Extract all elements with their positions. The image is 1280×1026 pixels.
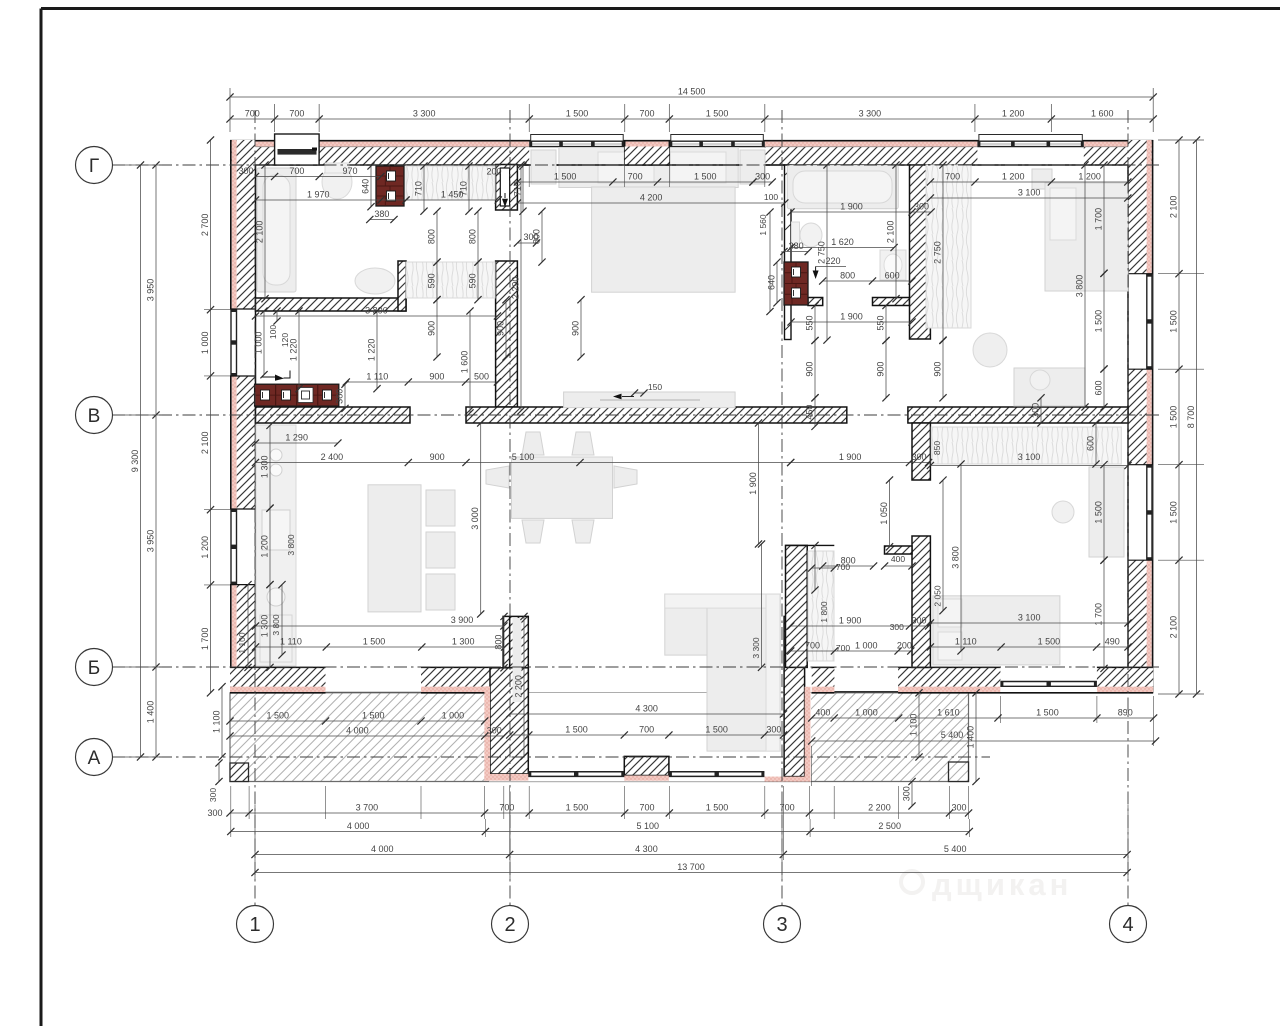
svg-text:1 200: 1 200: [260, 535, 270, 558]
svg-text:710: 710: [414, 181, 424, 196]
terrace door sill hall: [834, 691, 898, 693]
svg-text:3 100: 3 100: [1018, 452, 1041, 462]
living dims: [480, 423, 482, 614]
svg-text:2 100: 2 100: [255, 221, 265, 244]
svg-text:900: 900: [429, 372, 444, 382]
axis bubble 1: [237, 906, 274, 943]
svg-text:800: 800: [468, 229, 478, 244]
svg-text:1 110: 1 110: [280, 637, 302, 647]
svg-text:1 900: 1 900: [840, 312, 863, 322]
svg-text:1 290: 1 290: [285, 433, 308, 443]
axis bubble &#1043;: [76, 147, 113, 184]
entry niche top-left: [275, 134, 320, 165]
svg-text:2 050: 2 050: [933, 585, 943, 607]
svg-text:1 110: 1 110: [366, 372, 388, 382]
svg-text:900: 900: [427, 321, 437, 336]
svg-text:1 500: 1 500: [565, 725, 588, 735]
svg-text:3 300: 3 300: [859, 109, 882, 119]
wardrobe office: [931, 427, 1121, 464]
svg-text:1 220: 1 220: [289, 339, 299, 362]
svg-text:970: 970: [343, 166, 358, 176]
svg-text:3 800: 3 800: [286, 534, 296, 556]
interior wall B-row kitchen: [256, 407, 411, 423]
svg-text:1 100: 1 100: [237, 632, 247, 654]
interior wall B-row middle: [466, 407, 847, 423]
exterior bottom wall segment: [898, 667, 1000, 686]
svg-text:5 100: 5 100: [512, 452, 535, 462]
svg-text:5 100: 5 100: [636, 821, 659, 831]
svg-text:1 500: 1 500: [1094, 501, 1104, 524]
window in left wall: [230, 309, 237, 376]
svg-text:2 100: 2 100: [1169, 616, 1179, 639]
svg-text:2 100: 2 100: [1169, 196, 1179, 219]
svg-text:120: 120: [280, 333, 290, 347]
svg-text:1 110: 1 110: [955, 637, 977, 647]
svg-text:3 800: 3 800: [271, 614, 281, 636]
stools: [426, 490, 455, 526]
right dimension 8700: [1196, 140, 1198, 694]
svg-text:1 300: 1 300: [260, 615, 270, 638]
svg-text:700: 700: [640, 109, 655, 119]
svg-text:1 500: 1 500: [1038, 637, 1061, 647]
svg-text:9 300: 9 300: [130, 450, 140, 473]
svg-text:1 000: 1 000: [200, 332, 210, 355]
svg-text:1 500: 1 500: [266, 711, 289, 721]
svg-text:1 620: 1 620: [831, 237, 854, 247]
svg-text:640: 640: [767, 275, 777, 290]
svg-text:2: 2: [504, 914, 515, 936]
svg-text:1 450: 1 450: [441, 190, 464, 200]
nightstand bedroom2: [1032, 169, 1052, 189]
svg-text:1 500: 1 500: [706, 109, 729, 119]
kitchen flue entry arrow: [262, 376, 276, 378]
top wall inner line: [256, 164, 1129, 166]
svg-text:2 200: 2 200: [868, 803, 891, 813]
office dims: [889, 480, 891, 547]
svg-text:300: 300: [902, 786, 912, 801]
interior wall bedroom2 west: [910, 165, 931, 339]
svg-text:550: 550: [876, 315, 886, 330]
left dimension chain: [155, 165, 157, 757]
bottom dimension row A: [230, 812, 969, 814]
window in right wall: [1146, 274, 1153, 370]
bay window 1: [528, 771, 624, 773]
sofa living: [665, 594, 780, 655]
svg-text:1 800: 1 800: [819, 601, 829, 623]
svg-text:4 000: 4 000: [347, 821, 370, 831]
svg-text:800: 800: [427, 229, 437, 244]
interior dims row under B wall: [256, 462, 791, 464]
top dimension row 14500: [230, 96, 1153, 98]
svg-text:В: В: [88, 406, 101, 427]
svg-text:3 950: 3 950: [146, 279, 156, 302]
interior wall office west lower: [912, 536, 930, 667]
svg-text:300: 300: [523, 232, 538, 242]
plant bedroom2: [973, 333, 1007, 367]
svg-text:1 100: 1 100: [909, 714, 919, 737]
svg-text:300: 300: [952, 803, 967, 813]
svg-text:1 700: 1 700: [1094, 208, 1104, 231]
svg-text:800: 800: [840, 271, 855, 281]
svg-text:3 000: 3 000: [470, 507, 480, 530]
svg-text:2 100: 2 100: [200, 432, 210, 455]
svg-text:1 610: 1 610: [937, 708, 960, 718]
svg-text:1 900: 1 900: [748, 472, 758, 495]
axis line В: [112, 414, 1160, 416]
left terrace vertical dims: [221, 687, 223, 757]
svg-text:300: 300: [238, 166, 253, 176]
svg-text:220: 220: [825, 256, 840, 266]
interior wall bathroom1 east: [398, 261, 406, 311]
svg-text:890: 890: [1118, 708, 1133, 718]
svg-text:1 500: 1 500: [363, 637, 386, 647]
svg-text:3 100: 3 100: [1018, 613, 1041, 623]
interior wall bathroom2 south-right: [873, 298, 910, 306]
bed bedroom2: [1045, 183, 1128, 291]
dining table: [512, 457, 613, 518]
svg-text:700: 700: [628, 172, 643, 182]
svg-text:1 300: 1 300: [260, 456, 270, 479]
exterior top wall segment: [625, 142, 670, 147]
svg-text:4 300: 4 300: [635, 844, 658, 854]
svg-text:4 000: 4 000: [371, 844, 394, 854]
svg-text:900: 900: [933, 362, 943, 377]
terrace door sill kitchen: [326, 691, 422, 693]
bay left pier: [503, 616, 510, 667]
svg-text:2 700: 2 700: [200, 214, 210, 237]
svg-text:2 200: 2 200: [514, 675, 524, 698]
svg-text:4 300: 4 300: [635, 704, 658, 714]
svg-text:1 000: 1 000: [855, 708, 878, 718]
window in right wall: [1146, 465, 1153, 561]
exterior top wall segment: [765, 142, 978, 147]
svg-text:850: 850: [932, 441, 942, 455]
exterior top wall segment: [1084, 142, 1153, 147]
tv stand bedroom1: [564, 392, 736, 408]
svg-text:1 100: 1 100: [212, 710, 222, 733]
interior dims row y647: [256, 646, 505, 648]
svg-text:300: 300: [912, 616, 927, 626]
top dimension chain row: [230, 118, 1153, 120]
axis line 4: [1127, 110, 1129, 905]
svg-text:1 500: 1 500: [1036, 708, 1059, 718]
svg-text:900: 900: [571, 321, 581, 336]
svg-text:3 800: 3 800: [365, 306, 388, 316]
bed bedroom1: [559, 148, 738, 188]
svg-text:1 050: 1 050: [879, 502, 889, 525]
interior wall office west upper: [912, 423, 930, 480]
svg-text:1 400: 1 400: [146, 701, 156, 724]
dims 1110 900 500: [346, 381, 497, 383]
bay dims: [510, 713, 784, 715]
exterior left wall segment: [232, 140, 237, 309]
exterior top wall segment: [230, 142, 275, 147]
left inner dims: [210, 140, 212, 693]
shelf niche living: [808, 551, 834, 661]
right wall outer line: [1152, 140, 1154, 693]
svg-text:600: 600: [1086, 436, 1096, 451]
toilet bathroom2: [792, 222, 800, 248]
bedroom1 dims: [517, 181, 753, 183]
svg-text:1 700: 1 700: [200, 628, 210, 651]
svg-text:700: 700: [836, 562, 850, 572]
bedroom2 dims: [930, 181, 1127, 183]
svg-text:1 560: 1 560: [758, 214, 768, 236]
brick flue bathroom1: [376, 166, 404, 206]
wardrobe corridor top: [406, 166, 495, 200]
svg-text:400: 400: [891, 554, 905, 564]
bay left corner block: [490, 668, 528, 774]
axis bubble 2: [492, 906, 529, 943]
svg-text:1 500: 1 500: [566, 109, 589, 119]
svg-text:700: 700: [245, 109, 260, 119]
terrace dims left: [230, 720, 485, 722]
interior wall bathroom2 south-left: [808, 298, 823, 306]
svg-text:700: 700: [639, 803, 654, 813]
svg-text:2 750: 2 750: [817, 241, 827, 264]
svg-text:490: 490: [1105, 637, 1120, 647]
svg-text:150: 150: [648, 382, 662, 392]
svg-text:1 600: 1 600: [1091, 109, 1114, 119]
interior wall bathroom2 west (thin): [785, 165, 792, 340]
axis bubble &#1042;: [76, 397, 113, 434]
svg-text:Г: Г: [89, 156, 99, 177]
niche top line: [786, 544, 835, 546]
kitchen counter: [256, 425, 296, 666]
bay curtain strip: [513, 618, 522, 702]
bottom dimension row B: [231, 831, 970, 833]
svg-text:700: 700: [805, 641, 820, 651]
interior wall living east: [786, 545, 808, 667]
terrace step block: [949, 762, 969, 782]
interior wall B-row office: [908, 407, 1128, 423]
svg-text:400: 400: [815, 708, 830, 718]
svg-text:1 500: 1 500: [1169, 310, 1179, 333]
svg-text:300: 300: [912, 452, 927, 462]
svg-text:1 500: 1 500: [554, 172, 577, 182]
svg-text:900: 900: [876, 362, 886, 377]
svg-text:3 100: 3 100: [1018, 188, 1041, 198]
axis bubble &#1041;: [76, 649, 113, 686]
bay right wall: [784, 616, 805, 776]
svg-text:1 500: 1 500: [362, 711, 385, 721]
svg-text:700: 700: [499, 803, 514, 813]
svg-text:1 200: 1 200: [1002, 109, 1025, 119]
svg-text:4: 4: [1122, 914, 1133, 936]
sink bathroom1: [355, 268, 395, 294]
svg-text:380: 380: [374, 209, 389, 219]
svg-text:1 700: 1 700: [1094, 603, 1104, 626]
right wall inner line: [1127, 165, 1129, 274]
svg-text:100: 100: [764, 192, 778, 202]
svg-text:14 500: 14 500: [678, 87, 706, 97]
svg-text:2 290: 2 290: [511, 277, 521, 300]
top wall outer line: [230, 140, 1153, 142]
exterior right wall segment: [1147, 140, 1152, 274]
svg-text:1 500: 1 500: [1094, 310, 1104, 333]
terrace corner step: [230, 763, 249, 782]
svg-text:3 800: 3 800: [1075, 275, 1085, 298]
dim 450 150: [814, 398, 816, 427]
svg-text:1 900: 1 900: [839, 452, 862, 462]
svg-text:1 500: 1 500: [1169, 501, 1179, 524]
exterior right wall segment: [1147, 369, 1152, 465]
bay interior floor mask: [489, 693, 811, 782]
window in top wall: [669, 141, 765, 147]
svg-text:300: 300: [755, 172, 770, 182]
svg-text:5 400: 5 400: [941, 730, 964, 740]
toilet bathroom1: [322, 165, 352, 199]
bedroom1 dim extension lines: [528, 166, 530, 187]
svg-text:900: 900: [496, 321, 506, 336]
svg-text:2 400: 2 400: [321, 452, 344, 462]
svg-text:1 400: 1 400: [966, 726, 976, 749]
bathtub bathroom2: [787, 165, 898, 208]
kitchen left dims: [269, 425, 271, 508]
svg-text:300: 300: [914, 202, 929, 212]
left wall inner line: [255, 165, 257, 298]
svg-text:700: 700: [836, 643, 850, 653]
svg-text:5 400: 5 400: [944, 844, 967, 854]
svg-text:200: 200: [486, 167, 501, 177]
svg-text:2 750: 2 750: [933, 241, 943, 264]
svg-text:4 200: 4 200: [640, 193, 663, 203]
svg-text:1 900: 1 900: [839, 616, 862, 626]
interior wall duct niche: [496, 165, 518, 211]
svg-text:700: 700: [945, 172, 960, 182]
svg-text:380: 380: [789, 241, 804, 251]
svg-text:1 500: 1 500: [694, 172, 717, 182]
svg-text:3 950: 3 950: [146, 530, 156, 553]
wardrobe bedroom2: [926, 165, 971, 328]
svg-text:1 000: 1 000: [254, 332, 264, 355]
bathroom2 dims: [791, 211, 931, 213]
exterior bottom wall segment: [812, 667, 835, 686]
door stub office: [885, 546, 913, 554]
window in left wall: [230, 509, 237, 585]
pink separator top: [230, 146, 275, 148]
exterior right wall segment: [1147, 560, 1152, 693]
window in bottom wall: [1000, 681, 1097, 692]
exterior bottom wall segment: [1097, 667, 1153, 686]
svg-text:13 700: 13 700: [677, 862, 705, 872]
svg-text:1 900: 1 900: [840, 202, 863, 212]
exterior bottom wall segment: [230, 667, 326, 686]
svg-text:800: 800: [494, 635, 504, 650]
desk bedroom2: [1014, 368, 1085, 406]
svg-text:550: 550: [805, 315, 815, 330]
bay window 2: [669, 771, 765, 773]
wardrobe corridor bottom: [406, 262, 495, 298]
window in top wall: [977, 141, 1083, 147]
svg-text:700: 700: [639, 725, 654, 735]
bathtub bathroom1: [257, 168, 296, 292]
brick flue kitchen: [255, 384, 339, 406]
svg-text:1 200: 1 200: [1078, 172, 1101, 182]
svg-text:1 500: 1 500: [706, 803, 729, 813]
sink bathroom2: [880, 250, 906, 280]
svg-text:3 300: 3 300: [413, 109, 436, 119]
left wall outer line: [230, 140, 232, 693]
svg-text:1 200: 1 200: [200, 536, 210, 559]
axis line А: [112, 756, 990, 758]
svg-text:2 100: 2 100: [886, 221, 896, 244]
svg-text:Б: Б: [88, 658, 100, 679]
svg-text:700: 700: [289, 109, 304, 119]
svg-text:380: 380: [335, 389, 345, 404]
svg-text:1 500: 1 500: [705, 725, 728, 735]
svg-text:1 970: 1 970: [307, 190, 330, 200]
top wall pier redraw over bed: [625, 141, 670, 165]
axis line Б: [112, 666, 1160, 668]
window in top wall: [529, 141, 625, 147]
axis bubble &#1040;: [76, 739, 113, 776]
bay center pier: [624, 756, 669, 775]
svg-text:3 800: 3 800: [951, 546, 961, 569]
duct arrow: [504, 193, 506, 198]
svg-text:700: 700: [289, 166, 304, 176]
exterior bottom wall segment: [421, 667, 490, 686]
bathroom1 dims: [256, 176, 381, 178]
axis line 3: [781, 110, 783, 905]
right dimension chain: [1178, 140, 1180, 694]
interior dims row y626: [256, 625, 504, 627]
svg-text:3 900: 3 900: [451, 615, 474, 625]
svg-text:640: 640: [361, 179, 371, 194]
dims 800 row: [436, 211, 438, 262]
axis line Г: [112, 164, 1160, 166]
bottom dimension row C: [255, 854, 1127, 856]
svg-text:450: 450: [805, 405, 815, 420]
bottom wall outer line: [230, 692, 326, 694]
svg-text:А: А: [88, 748, 101, 769]
hall dims 3800: [256, 315, 498, 317]
svg-text:300: 300: [766, 725, 781, 735]
svg-text:1: 1: [249, 914, 260, 936]
svg-text:1 600: 1 600: [460, 351, 470, 374]
svg-text:300: 300: [487, 726, 502, 736]
axis bubble 3: [764, 906, 801, 943]
svg-text:300: 300: [208, 788, 218, 802]
svg-text:3 700: 3 700: [356, 803, 379, 813]
svg-text:600: 600: [885, 271, 900, 281]
svg-text:200: 200: [897, 641, 912, 651]
svg-text:4 000: 4 000: [346, 726, 369, 736]
svg-text:300: 300: [207, 808, 222, 818]
svg-text:600: 600: [1094, 380, 1104, 395]
svg-text:300: 300: [1031, 403, 1041, 418]
svg-text:8 700: 8 700: [1186, 406, 1196, 429]
svg-text:1 200: 1 200: [1002, 172, 1025, 182]
corridor 900 dims: [436, 300, 438, 357]
kitchen dim 380: [344, 384, 346, 408]
axis line 1: [254, 110, 256, 905]
axis bubble 4: [1110, 906, 1147, 943]
terrace dims right: [812, 717, 1154, 719]
bay left wall: [510, 616, 529, 756]
svg-text:900: 900: [430, 452, 445, 462]
left dimension column 9300: [140, 165, 142, 757]
dim 1290: [256, 442, 338, 444]
svg-text:3 300: 3 300: [751, 637, 761, 659]
svg-text:590: 590: [427, 273, 437, 288]
drawing frame border: [41, 7, 1280, 10]
svg-text:1 220: 1 220: [367, 339, 377, 362]
axis line 2: [509, 110, 511, 905]
kitchen island: [368, 485, 421, 612]
svg-text:1 300: 1 300: [452, 637, 475, 647]
svg-text:1 500: 1 500: [566, 803, 589, 813]
